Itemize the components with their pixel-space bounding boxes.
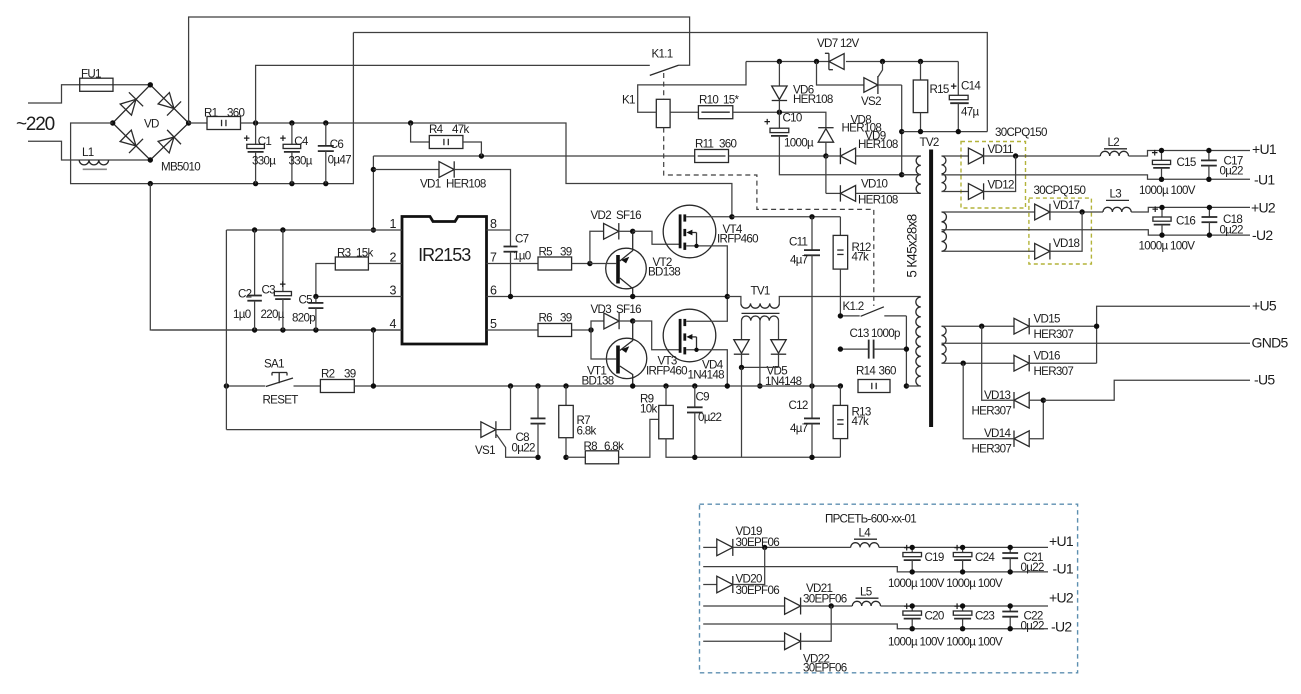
transformer TV2 sec U1 <box>942 156 946 192</box>
junction VS1 cathode bus <box>508 383 513 388</box>
junction VD1 anode tap <box>371 167 376 172</box>
junction VD11 cathode <box>1013 153 1018 158</box>
label C15 value <box>1139 184 1196 197</box>
zener VD7 <box>825 53 844 69</box>
inductor L2 <box>1100 151 1250 157</box>
label R11 <box>695 138 714 151</box>
label R2 <box>321 368 335 381</box>
svg-text:-U1: -U1 <box>1053 561 1074 577</box>
svg-text:R3: R3 <box>337 247 351 260</box>
junction C12 top <box>809 383 814 388</box>
svg-text:VD17: VD17 <box>1053 199 1079 212</box>
svg-text:VD10: VD10 <box>861 178 887 191</box>
svg-text:HER108: HER108 <box>793 93 833 106</box>
diode VD2 <box>590 223 633 263</box>
svg-text:39: 39 <box>560 246 572 259</box>
svg-text:+: + <box>951 81 957 93</box>
label R14 <box>856 365 876 378</box>
svg-text:C16: C16 <box>1176 215 1195 228</box>
switch SA1 wire <box>226 385 265 387</box>
label VS1 <box>475 444 495 457</box>
label RESET <box>263 394 299 407</box>
label C14 <box>961 80 981 93</box>
mosfet VT4 source <box>686 246 727 297</box>
svg-text:39: 39 <box>560 312 572 325</box>
label GND5 out <box>1252 335 1289 351</box>
label C15 plus <box>1152 148 1158 160</box>
junction C1 minus <box>253 181 258 186</box>
svg-text:L3: L3 <box>1110 188 1122 201</box>
transformer TV1 core <box>742 312 780 314</box>
label VT4 type <box>717 233 758 246</box>
label VD3 <box>591 303 612 316</box>
svg-text:+: + <box>244 133 250 145</box>
label R11 value <box>719 138 736 151</box>
svg-text:L2: L2 <box>1108 136 1120 149</box>
svg-text:L5: L5 <box>860 586 872 599</box>
svg-text:1000µ 100V 1000µ 100V: 1000µ 100V 1000µ 100V <box>888 636 1003 649</box>
label C20 C23 values <box>888 636 1003 649</box>
label R15 <box>930 83 949 96</box>
diode VD22 <box>703 606 831 650</box>
svg-text:K1.2: K1.2 <box>843 300 864 313</box>
svg-text:L1: L1 <box>82 146 94 159</box>
junction VD6 top <box>777 59 782 64</box>
junction C5 bottom <box>313 327 318 332</box>
inductor L4 <box>851 543 1048 548</box>
wire relay bottom rail <box>902 131 988 133</box>
junction VT2 base node <box>587 261 592 266</box>
label pin 1 <box>390 217 397 231</box>
svg-text:C24: C24 <box>975 551 995 564</box>
svg-text:R8: R8 <box>584 440 598 453</box>
svg-text:15k: 15k <box>356 247 373 260</box>
label C4 plus <box>280 133 286 145</box>
junction VT1 collector bus <box>630 383 635 388</box>
resistor R11 <box>373 150 826 163</box>
inductor L1 <box>79 160 108 169</box>
capacitor C9 <box>687 386 703 457</box>
svg-text:IRFP460: IRFP460 <box>646 365 687 378</box>
label VT3 type <box>646 365 687 378</box>
junction C22 bottom <box>1008 626 1013 631</box>
label C18 <box>1223 213 1242 226</box>
label 30CPQ150 U1 <box>995 126 1047 139</box>
svg-text:C9: C9 <box>696 391 710 404</box>
svg-text:2: 2 <box>390 251 397 265</box>
label TV1 <box>751 285 770 298</box>
label VD9 <box>865 130 886 143</box>
junction R4 tap <box>408 120 413 125</box>
junction VD4 bottom <box>739 365 744 370</box>
fuse FU1 <box>80 78 113 91</box>
diode VD11 <box>942 148 1101 164</box>
IC U1 IR2153 body <box>402 217 487 345</box>
label VD17 <box>1053 199 1079 212</box>
svg-text:30EPF06: 30EPF06 <box>803 593 847 606</box>
svg-text:0µ22: 0µ22 <box>1220 165 1243 178</box>
svg-text:1000µ: 1000µ <box>784 137 814 150</box>
label R8 value <box>604 440 624 453</box>
svg-text:SA1: SA1 <box>264 358 284 371</box>
label VD10 type <box>858 194 898 207</box>
mosfet VT4 drain <box>686 216 732 218</box>
label PRSET title <box>825 513 916 526</box>
junction C20 bottom <box>910 626 915 631</box>
svg-text:K1: K1 <box>622 94 635 107</box>
wire pin8 lead <box>487 229 511 231</box>
svg-text:820p: 820p <box>292 312 315 325</box>
svg-text:IRFP460: IRFP460 <box>717 233 758 246</box>
transistor VT1 body <box>606 338 646 378</box>
wire pin4 line <box>152 329 403 331</box>
wire Vcc drop <box>372 156 374 230</box>
junction C24 top <box>960 545 965 550</box>
label VD20 <box>736 573 762 586</box>
junction C24 bottom <box>960 569 965 574</box>
switch SA1 blade <box>266 378 293 387</box>
junction VS2 rail <box>899 129 904 134</box>
label pin 5 <box>490 317 497 331</box>
mosfet VT3 body diode <box>686 334 698 352</box>
capacitor C22 <box>1002 606 1018 629</box>
capacitor C16 <box>1153 207 1171 235</box>
label R12 value <box>852 251 869 264</box>
diode VD14 <box>963 363 1043 447</box>
label L5 <box>860 586 872 599</box>
mosfet VT3 body <box>663 309 716 362</box>
svg-text:C19: C19 <box>925 551 944 564</box>
dashed box VD11 VD12 <box>961 142 1026 209</box>
svg-text:C1: C1 <box>258 135 272 148</box>
dashed link K1 to K1.2 <box>664 128 874 306</box>
label C8 <box>516 431 530 444</box>
capacitor C23 <box>953 606 972 629</box>
svg-text:VD14: VD14 <box>984 427 1011 440</box>
capacitor C19 <box>903 547 922 572</box>
label L4 underline <box>854 538 877 540</box>
wire VS2 cathode drop <box>901 85 903 175</box>
junction pin3 C5 <box>313 294 318 299</box>
diode VD21 <box>703 598 852 615</box>
junction pin4 drop top <box>371 327 376 332</box>
junction R7 top <box>563 383 568 388</box>
svg-text:VD11: VD11 <box>988 143 1014 156</box>
label L5 underline <box>856 597 879 599</box>
label R3 value <box>356 247 373 260</box>
svg-text:VD1: VD1 <box>420 178 441 191</box>
svg-text:SF16: SF16 <box>616 303 641 316</box>
svg-text:+: + <box>280 279 286 291</box>
svg-text:C3: C3 <box>262 284 276 297</box>
diode VD9 <box>826 148 921 164</box>
svg-text:47k: 47k <box>852 251 869 264</box>
resistor R13 <box>833 386 848 457</box>
svg-text:+U2: +U2 <box>1251 200 1276 216</box>
svg-text:360: 360 <box>227 107 244 120</box>
label C19 <box>925 551 944 564</box>
transistor VT2 base <box>590 255 620 284</box>
svg-text:+U5: +U5 <box>1252 298 1277 314</box>
label R7 value <box>577 425 597 438</box>
svg-text:-U1: -U1 <box>1254 172 1275 188</box>
svg-text:6.8k: 6.8k <box>604 440 624 453</box>
junction R7 bottom <box>563 455 568 460</box>
svg-text:C11: C11 <box>789 236 808 249</box>
label R8 <box>584 440 598 453</box>
junction minus U5 node <box>1041 398 1046 403</box>
svg-text:C5: C5 <box>299 294 313 307</box>
capacitor C5 <box>308 297 323 331</box>
label C3 value <box>261 308 285 321</box>
diode VD3 <box>591 313 633 330</box>
svg-text:+: + <box>904 601 910 613</box>
bridge rectifier VD outline <box>113 85 189 160</box>
label IR2153 <box>418 245 471 265</box>
svg-text:K1.1: K1.1 <box>652 48 673 61</box>
svg-text:VD12: VD12 <box>988 179 1014 192</box>
diode VD5 <box>771 340 786 368</box>
junction pin1 node <box>371 227 376 232</box>
label VT1 type <box>582 375 614 388</box>
junction VD21 cathode <box>829 603 834 608</box>
junction minus rail x150 <box>148 181 153 186</box>
svg-text:+: + <box>954 601 960 613</box>
wire pin1 line <box>226 229 402 231</box>
junction bridge bottom <box>148 157 153 162</box>
label VD15 <box>1034 313 1060 326</box>
label MB5010 <box>161 161 200 174</box>
capacitor C12 <box>804 386 820 457</box>
label C16 plus <box>1152 204 1158 216</box>
wire pin6 line <box>487 296 728 298</box>
svg-text:RESET: RESET <box>263 394 299 407</box>
label C18 value <box>1220 224 1243 237</box>
transformer TV2 aux tap <box>902 174 921 176</box>
label VD2 <box>591 209 612 222</box>
svg-text:0µ22: 0µ22 <box>1021 561 1044 574</box>
label K1 <box>622 94 635 107</box>
label VD21 type <box>803 593 847 606</box>
svg-text:TV1: TV1 <box>751 285 770 298</box>
wire raw plus to K1.1 <box>189 17 690 123</box>
svg-text:-U2: -U2 <box>1051 619 1072 635</box>
bridge diode top-left <box>120 92 143 115</box>
svg-text:+: + <box>904 543 910 555</box>
wire VD4 VD5 join <box>742 366 779 368</box>
label VD14 <box>984 427 1011 440</box>
wire COM drop from minus rail <box>150 184 402 330</box>
label VD9 type <box>858 138 898 151</box>
label R9 value <box>640 403 657 416</box>
svg-text:R14: R14 <box>856 365 876 378</box>
inductor L3 <box>1103 207 1250 212</box>
label C20 <box>925 610 944 623</box>
capacitor C4 <box>283 123 301 184</box>
wire R5 out <box>572 263 590 265</box>
junction VD17 cathode <box>1079 209 1084 214</box>
label TV2 type <box>905 214 920 277</box>
relay contact K1.1 blade <box>650 65 679 75</box>
label VD7 12V <box>817 37 859 50</box>
label K1.1 <box>652 48 673 61</box>
dashed link K1 to K1.1 <box>663 73 665 99</box>
svg-text:360: 360 <box>879 365 896 378</box>
diode VD12 <box>942 156 1016 200</box>
svg-text:7: 7 <box>490 251 497 265</box>
label VD19 type <box>736 536 780 549</box>
svg-text:0µ22: 0µ22 <box>1220 224 1243 237</box>
mosfet VT3 source <box>686 350 727 386</box>
svg-text:1µ0: 1µ0 <box>233 308 251 321</box>
capacitor C1 <box>247 123 265 184</box>
svg-text:4µ7: 4µ7 <box>790 422 808 435</box>
wire AC input upper stub <box>28 85 150 103</box>
label C14 value <box>961 106 979 119</box>
junction bridge left <box>110 120 115 125</box>
svg-text:10k: 10k <box>640 403 657 416</box>
svg-text:-U5: -U5 <box>1254 372 1275 388</box>
dashed box PRSET <box>700 504 1078 673</box>
label VD22 type <box>803 662 847 675</box>
label VD22 <box>803 653 829 666</box>
capacitor C20 <box>903 606 922 629</box>
label VD5 type <box>765 375 802 388</box>
label +U1 box out <box>1049 533 1074 549</box>
transistor VT1 base <box>591 330 620 374</box>
junction R9 top <box>663 383 668 388</box>
label -U2 out <box>1252 227 1273 243</box>
junction C21 bottom <box>1008 569 1013 574</box>
junction C18 bottom <box>1207 232 1212 237</box>
wire K1.2 right drop <box>905 316 907 386</box>
svg-text:ПРСЕТЬ-600-xx-01: ПРСЕТЬ-600-xx-01 <box>825 513 916 526</box>
label VD6 type <box>793 93 833 106</box>
wire VT4 gate <box>633 231 679 244</box>
svg-text:47k: 47k <box>452 123 469 136</box>
junction C23 top <box>960 603 965 608</box>
capacitor C13 <box>840 340 906 359</box>
label -U1 box out <box>1053 561 1074 577</box>
label C11 <box>789 236 808 249</box>
label C1 <box>258 135 272 148</box>
junction C23 bottom <box>960 626 965 631</box>
label C17 value <box>1220 165 1243 178</box>
transistor VT1 emitter <box>620 321 633 353</box>
wire AC input lower stub <box>28 141 150 160</box>
label SA1 <box>264 358 284 371</box>
label L2 <box>1108 136 1120 149</box>
junction C16 bottom <box>1159 232 1164 237</box>
label R14 value <box>879 365 896 378</box>
label C12 <box>789 399 808 412</box>
label VD1 type <box>446 178 486 191</box>
svg-text:R6: R6 <box>539 312 553 325</box>
junction C18 top <box>1207 205 1212 210</box>
label VD16 <box>1034 350 1060 363</box>
capacitor C10 <box>770 112 921 175</box>
diode VD1 <box>373 161 510 230</box>
svg-text:R10: R10 <box>699 94 718 107</box>
svg-text:C7: C7 <box>515 233 529 246</box>
junction C10 tap <box>899 172 904 177</box>
bridge diode bottom-right <box>158 130 181 153</box>
label VD14 type <box>972 443 1012 456</box>
junction C20 top <box>910 603 915 608</box>
resistor R15 <box>913 62 928 132</box>
label C10 <box>783 112 802 125</box>
label C5 value <box>292 312 315 325</box>
capacitor C6 <box>318 123 334 184</box>
wire minus U1 feed <box>942 175 1251 179</box>
label VT1 <box>587 365 606 378</box>
svg-text:~220: ~220 <box>16 114 55 135</box>
svg-text:330µ: 330µ <box>252 155 276 168</box>
junction C13 left <box>838 346 843 351</box>
junction C4 minus <box>289 181 294 186</box>
junction R14 right <box>904 383 909 388</box>
label VT2 type <box>648 266 680 279</box>
junction VD6 C10 <box>777 110 782 115</box>
resistor R5 <box>487 257 572 270</box>
label VD8 type <box>842 122 882 135</box>
junction bus right end <box>838 383 843 388</box>
diode VD19 <box>703 539 851 556</box>
junction bridge right <box>186 120 191 125</box>
label VD5 <box>767 365 788 378</box>
label +U2 out <box>1251 200 1276 216</box>
diode VD20 <box>703 547 765 593</box>
svg-text:R11: R11 <box>695 138 714 151</box>
svg-text:C23: C23 <box>975 610 994 623</box>
label pin 7 <box>490 251 497 265</box>
resistor R7 <box>559 386 574 457</box>
svg-text:R1: R1 <box>204 107 218 120</box>
svg-text:HER108: HER108 <box>858 138 898 151</box>
junction C7 bottom <box>508 294 513 299</box>
junction C9 bottom <box>692 455 697 460</box>
svg-text:VD3: VD3 <box>591 303 612 316</box>
capacitor C24 <box>953 547 972 572</box>
junction VT2 emitter node <box>630 229 635 234</box>
junction C14 bottom <box>956 129 961 134</box>
bridge diode bottom-left <box>120 130 143 153</box>
junction R15 bottom <box>918 129 923 134</box>
junction C15 bottom <box>1159 177 1164 182</box>
svg-text:5: 5 <box>490 317 497 331</box>
label 30CPQ150 U2 <box>1034 184 1086 197</box>
svg-text:4: 4 <box>390 317 397 331</box>
junction C21 top <box>1008 545 1013 550</box>
label +U2 box out <box>1049 590 1074 606</box>
junction C22 top <box>1008 603 1013 608</box>
junction C17 bottom <box>1206 177 1211 182</box>
svg-text:6: 6 <box>490 284 497 298</box>
svg-text:3: 3 <box>390 284 397 298</box>
svg-text:C12: C12 <box>789 399 808 412</box>
label R9 <box>640 393 654 406</box>
junction R4 out <box>479 153 484 158</box>
label VD8 <box>851 114 872 127</box>
label R4 <box>429 123 444 136</box>
capacitor C17 <box>1201 151 1217 180</box>
label K1.2 <box>843 300 864 313</box>
junction C19 top <box>910 545 915 550</box>
junction VD14 tap <box>961 361 966 366</box>
wire minus U1 row <box>703 567 1048 572</box>
label C21 value <box>1021 561 1044 574</box>
junction VT4 drain <box>729 214 734 219</box>
